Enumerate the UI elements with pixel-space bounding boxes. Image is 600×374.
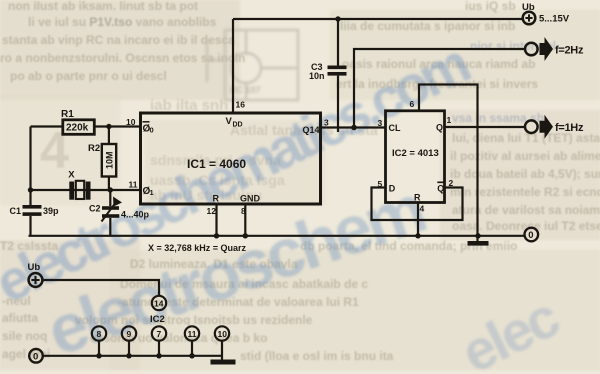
wire: left vertical rail: [29, 127, 31, 206]
wire: C3 upper lead: [337, 19, 339, 66]
svg-text:li ve iul su P1V.tso vano a: li ve iul su P1V.tso vano anoblibs: [28, 15, 217, 29]
terminal plus bottom: [29, 273, 43, 287]
label C3 value: [309, 62, 325, 81]
wire: IC1 pin8 to ground rail: [244, 204, 246, 236]
svg-text:vsa in ssama sb: vsa in ssama sb: [452, 111, 544, 125]
svg-text:IC1 = 4060: IC1 = 4060: [187, 157, 246, 171]
svg-text:16: 16: [236, 100, 246, 110]
svg-text:R: R: [414, 193, 421, 203]
wire: crystal line to IC1 pin 11: [31, 189, 141, 191]
svg-text:R1: R1: [61, 109, 74, 120]
IC1 inner labels: [143, 116, 320, 204]
terminal f1Hz circle: [525, 120, 538, 133]
svg-text:IC2 = 4013: IC2 = 4013: [392, 148, 439, 159]
svg-text:stanta ab vinp RC na incaro ei: stanta ab vinp RC na incaro ei ib il des…: [2, 33, 235, 47]
wire: pin11 stub: [191, 341, 193, 356]
IC2 inner labels: [389, 123, 445, 203]
svg-text:Ub: Ub: [522, 2, 535, 13]
svg-text:DD: DD: [233, 122, 243, 129]
node: C2 top junction: [108, 187, 113, 192]
arrow f2Hz: [540, 37, 554, 61]
IC1 4060 box: [141, 113, 321, 204]
wire: Q output to f1Hz: [445, 126, 526, 128]
resistor R2: [102, 144, 116, 177]
pin circle 10: [215, 326, 229, 340]
resistor R1: [63, 120, 95, 135]
svg-text:R: R: [213, 194, 220, 204]
svg-text:R2: R2: [88, 143, 100, 154]
svg-text:C2: C2: [89, 204, 101, 214]
svg-text:CL: CL: [389, 123, 401, 133]
capacitor C2 variable: [102, 206, 119, 218]
pin circle 9: [122, 326, 136, 340]
crystal X: [69, 181, 90, 200]
svg-text:IC2: IC2: [150, 314, 165, 325]
wire: f2Hz link: [354, 49, 525, 128]
node: Q14 junction: [351, 125, 357, 131]
wire: pin7 stub: [158, 341, 160, 356]
svg-text:Ub: Ub: [28, 262, 41, 273]
IC1 pin numbers: [126, 100, 329, 217]
pin circle 8: [92, 326, 106, 340]
wire: Q14 to CL: [321, 126, 386, 128]
arrow f1Hz: [540, 115, 554, 139]
wire: IC2 pin6 to ground net: [419, 85, 478, 242]
svg-text:0: 0: [150, 126, 154, 135]
wire: top supply rail: [233, 18, 522, 20]
wire: bottom pinout rail: [43, 355, 223, 357]
svg-text:C1: C1: [10, 206, 22, 216]
wire: C1 lower lead: [29, 216, 31, 236]
svg-text:0: 0: [33, 351, 38, 362]
wire: R2 lower lead: [108, 177, 110, 191]
svg-text:il pozitiv al aursei ab alimen: il pozitiv al aursei ab alimentare (care…: [450, 149, 600, 163]
svg-text:9: 9: [127, 329, 132, 339]
wire: pin9 stub: [128, 341, 130, 356]
wire: pin10 stub: [221, 341, 223, 360]
overbar of Qbar: [437, 181, 444, 183]
node: left rail / crystal junction: [28, 187, 33, 192]
IC2 4013 box: [386, 111, 445, 203]
svg-text:3: 3: [378, 118, 383, 128]
wire: C2 upper lead: [109, 190, 111, 206]
svg-text:6: 6: [410, 99, 415, 109]
svg-text:4: 4: [40, 122, 69, 180]
wire: IC2 pin4 R to ground rail: [417, 203, 419, 236]
svg-text:5...15V: 5...15V: [539, 14, 570, 25]
svg-text:14: 14: [154, 299, 164, 309]
svg-text:po ab o parte pnr o ui: po ab o parte pnr o ui descl: [10, 69, 167, 83]
svg-text:BC 107: BC 107: [230, 85, 261, 95]
overbar of phi0: [143, 121, 150, 123]
svg-text:liia de cumutata s ipanor si i: liia de cumutata s ipanor si inb: [340, 19, 515, 33]
wire: C3 lower lead to Q14 node: [337, 76, 339, 132]
svg-text:min rezistentele R2 si ecnds n: min rezistentele R2 si ecnds nim: [450, 185, 600, 199]
svg-text:12: 12: [207, 206, 217, 216]
node: R2 top junction: [106, 124, 111, 129]
wire: pin8 stub: [98, 341, 100, 356]
svg-text:10M: 10M: [105, 151, 115, 169]
svg-text:11: 11: [188, 329, 197, 339]
svg-text:1: 1: [447, 115, 452, 125]
svg-text:afiutta: afiutta: [2, 311, 38, 325]
wire: D pin5 feedback loop to Qbar pin2: [372, 188, 463, 221]
label Ub top: [522, 2, 570, 25]
wire: IC1 pin16 vertical: [232, 19, 234, 112]
pin circle 14: [152, 296, 166, 310]
wire: R1 to IC1 pin 10: [94, 125, 141, 127]
bleed-through transistor sketch top-right (decorative): [207, 30, 298, 100]
svg-text:0: 0: [528, 230, 533, 241]
wire: left rail to R1: [31, 125, 63, 127]
svg-text:4...40p: 4...40p: [121, 210, 150, 220]
terminal 0 bottom right: [525, 228, 539, 242]
svg-text:D: D: [389, 184, 396, 194]
svg-text:iab ilta snh: iab ilta snh: [150, 97, 228, 114]
svg-text:stid (lloa e osl im is bnu ita: stid (lloa e osl im is bnu ita: [240, 349, 394, 363]
arrow of C2: [102, 203, 116, 222]
svg-text:V: V: [226, 116, 233, 127]
svg-text:Q: Q: [436, 123, 443, 133]
svg-text:ib doua bateil ab 4,5V); sunt: ib doua bateil ab 4,5V); sunt aceste leg: [450, 167, 600, 181]
svg-text:X: X: [68, 170, 75, 181]
svg-text:10n: 10n: [309, 71, 325, 81]
svg-text:atura de varilost sa noiamicsb: atura de varilost sa noiamicsb s: [452, 203, 600, 217]
capacitor C1: [23, 205, 42, 216]
svg-text:1: 1: [150, 188, 154, 197]
svg-text:sile noq: sile noq: [2, 329, 47, 343]
svg-text:X = 32,768 kHz = Quarz: X = 32,768 kHz = Quarz: [148, 243, 247, 253]
svg-text:f=1Hz: f=1Hz: [555, 122, 584, 134]
terminal Ub plus: [523, 12, 536, 25]
wire: plus to pin14: [43, 280, 160, 296]
pin circle 7: [152, 326, 166, 340]
IC2 pin numbers: [378, 99, 454, 214]
svg-text:220k: 220k: [66, 123, 89, 134]
svg-text:non iIust ab iksam. Iinut sb t: non iIust ab iksam. Iinut sb ta pot: [8, 0, 198, 13]
capacitor C3: [328, 66, 347, 76]
svg-text:3: 3: [324, 118, 329, 128]
svg-text:ius iQ sb: ius iQ sb: [465, 0, 516, 13]
terminal f2Hz circle: [525, 43, 538, 56]
svg-text:8: 8: [97, 329, 102, 339]
wire: R2 upper lead: [108, 127, 110, 145]
ground symbol right: [468, 241, 489, 246]
ground symbol bottom left: [211, 360, 236, 365]
svg-text:Q14: Q14: [303, 125, 320, 135]
wire: C2 lower lead: [109, 218, 111, 236]
terminal 0 bottom left: [29, 349, 43, 363]
svg-text:4: 4: [420, 204, 425, 214]
wire: bottom ground rail: [29, 235, 525, 237]
svg-text:10: 10: [126, 117, 136, 127]
svg-text:Q: Q: [437, 184, 444, 194]
pin circle 11: [185, 326, 199, 340]
svg-text:7: 7: [157, 329, 162, 339]
svg-text:39p: 39p: [43, 206, 59, 216]
svg-text:ro a nonbenzstorulni. Oscnsn e: ro a nonbenzstorulni. Oscnsn etos sa inc…: [0, 51, 245, 65]
svg-text:10: 10: [218, 329, 228, 339]
node: right ground junction: [475, 233, 480, 238]
svg-text:11: 11: [129, 180, 138, 190]
svg-text:GND: GND: [240, 194, 261, 204]
node: C3 tap junction on supply rail: [335, 16, 340, 21]
svg-text:f=2Hz: f=2Hz: [555, 45, 584, 57]
wire: IC1 pin12 to ground rail: [215, 204, 217, 236]
